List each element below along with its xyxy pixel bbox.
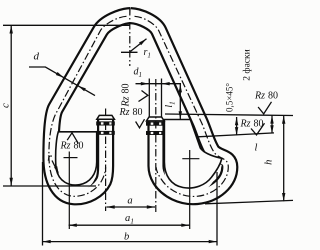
- Rz80 check 1 right side: [258, 102, 271, 114]
- right stud chamfered top: [147, 117, 165, 121]
- stud top reference line A: [165, 114, 293, 116]
- right stud thread band 1: [146, 122, 165, 135]
- h arrows: [282, 116, 285, 124]
- d1 extension lines: [148, 79, 150, 118]
- a1 arrows: [69, 224, 77, 227]
- a dimension line: [107, 206, 156, 208]
- r1 arrow: [139, 37, 148, 45]
- svg-text:a: a: [127, 196, 132, 207]
- d1 dimension line: [136, 83, 182, 85]
- c bottom extension line: [3, 185, 96, 187]
- d leader line: [29, 67, 95, 96]
- c top extension line: [3, 24, 130, 26]
- a arrows: [107, 205, 115, 208]
- svg-text:h: h: [264, 160, 275, 165]
- arrowheads: [10, 25, 286, 243]
- white cores making parallel contour lines: [51, 16, 131, 197]
- left hook hole center cross: [64, 150, 200, 229]
- svg-text:d: d: [34, 51, 40, 63]
- thread bottom reference line C: [198, 133, 274, 137]
- l1 dimension line: [179, 84, 181, 120]
- l dimension line: [271, 115, 273, 133]
- b left extension: [42, 162, 44, 246]
- Rz80 check between studs: [136, 119, 145, 128]
- left stud thread band 1: [96, 121, 115, 134]
- c dimension line: [10, 25, 12, 186]
- apex axis vertical centerline: [129, 8, 131, 66]
- svg-text:b: b: [124, 231, 129, 242]
- l1 arrows: [179, 84, 182, 92]
- svg-text:0,5×45°: 0,5×45°: [225, 83, 235, 112]
- Rz80 check pointing at right stud side: [139, 91, 148, 102]
- chamfer dim arrows: [235, 117, 238, 125]
- r leader: [52, 161, 58, 173]
- right hook hole center cross: [182, 158, 199, 160]
- chamfer height dimension line: [236, 117, 238, 135]
- thin annotation lines: [3, 25, 293, 245]
- svg-text:l: l: [255, 143, 258, 154]
- wire right limb + right hook curl: [131, 16, 230, 197]
- Rz80 check 2 right side: [251, 123, 265, 135]
- hook bottom reference line right: [205, 200, 293, 203]
- b right extension: [216, 172, 218, 246]
- c arrows: [10, 25, 13, 33]
- right limb axis dash-dot: [135, 16, 229, 196]
- d1 arrows: [141, 82, 149, 85]
- r1 leader: [130, 39, 146, 52]
- centerlines (dash-dot): [49, 8, 228, 212]
- b dimension line: [43, 241, 217, 243]
- b arrows: [43, 240, 51, 243]
- r arrow: [54, 166, 60, 175]
- roughness checkmarks: [67, 91, 271, 144]
- left stud chamfered top: [97, 115, 115, 119]
- l arrows: [270, 115, 273, 123]
- rod body of triangular link: black thick stroke + white core: [51, 16, 230, 197]
- left stud vertical centerline: [105, 109, 107, 212]
- apex cross tick: [121, 51, 138, 53]
- left limb axis dash-dot: [49, 16, 127, 196]
- a1 dimension line: [69, 224, 190, 226]
- d arrows: [56, 72, 65, 79]
- Rz80 check left hook: [67, 133, 78, 144]
- wire left limb + left hook curl: [51, 16, 131, 197]
- svg-text:2 фаски: 2 фаски: [242, 49, 253, 80]
- svg-text:c: c: [0, 103, 12, 108]
- right stud vertical centerline: [155, 79, 157, 212]
- h dimension line: [283, 116, 285, 202]
